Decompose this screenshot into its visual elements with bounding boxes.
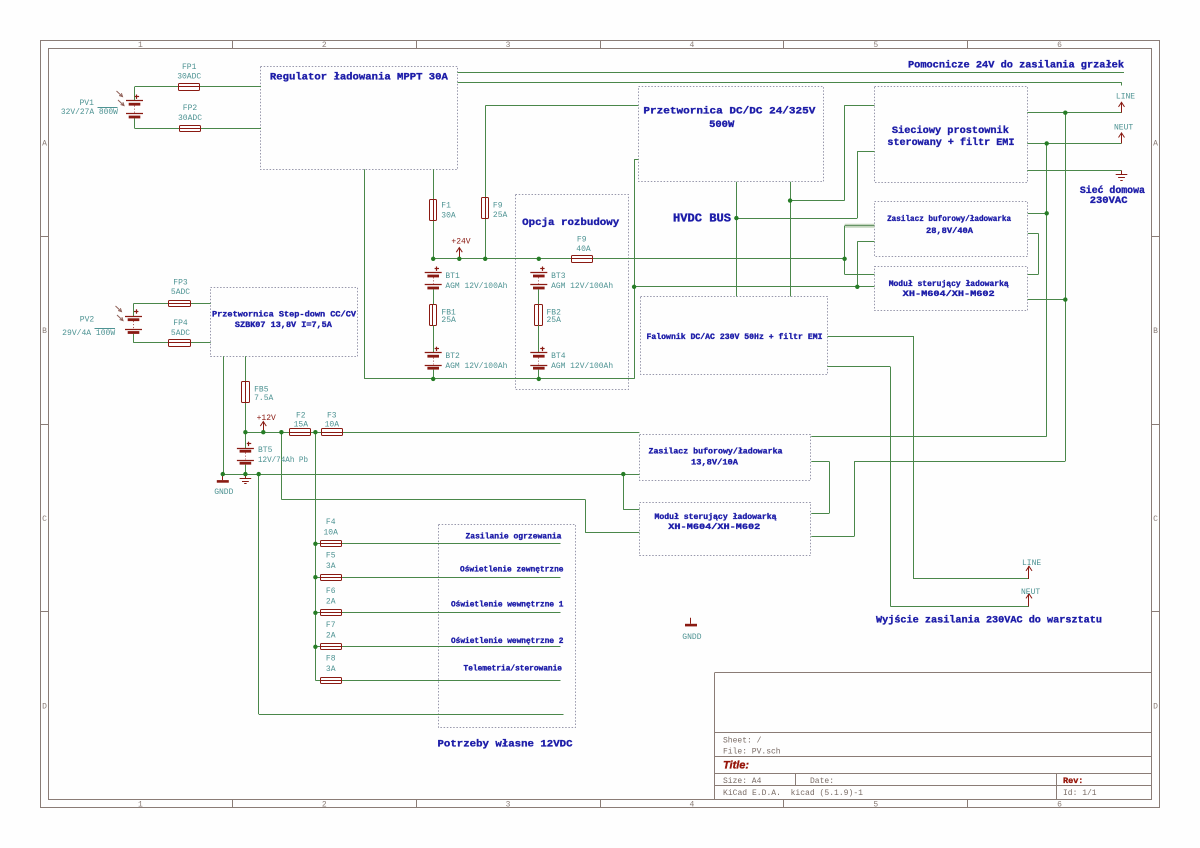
svg-text:32V/27A 800W: 32V/27A 800W — [61, 108, 118, 117]
svg-text:3: 3 — [506, 41, 511, 50]
svg-text:5: 5 — [873, 41, 878, 50]
svg-text:B: B — [42, 327, 47, 336]
svg-text:F9: F9 — [577, 235, 587, 244]
svg-text:Sieciowy prostownik: Sieciowy prostownik — [892, 125, 1009, 137]
svg-text:A: A — [42, 139, 47, 148]
svg-text:6: 6 — [1057, 801, 1062, 810]
svg-text:F9: F9 — [493, 201, 503, 210]
svg-text:F3: F3 — [327, 412, 337, 421]
svg-text:F7: F7 — [326, 621, 336, 630]
svg-text:2: 2 — [322, 801, 327, 810]
svg-text:Zasilacz buforowy/ładowarka: Zasilacz buforowy/ładowarka — [887, 214, 1011, 224]
svg-text:5: 5 — [873, 801, 878, 810]
svg-text:FP4: FP4 — [173, 319, 188, 328]
svg-text:C: C — [42, 515, 47, 524]
svg-text:30A: 30A — [441, 211, 456, 220]
svg-text:230VAC: 230VAC — [1090, 195, 1129, 207]
svg-text:C: C — [1153, 515, 1158, 524]
svg-text:Telemetria/sterowanie: Telemetria/sterowanie — [464, 664, 563, 674]
svg-text:5ADC: 5ADC — [171, 288, 190, 297]
svg-text:LINE: LINE — [1116, 93, 1135, 102]
svg-text:1: 1 — [138, 801, 143, 810]
svg-text:BT3: BT3 — [551, 272, 566, 281]
svg-text:File: PV.sch: File: PV.sch — [723, 748, 781, 757]
svg-text:FB5: FB5 — [254, 385, 269, 394]
svg-text:D: D — [42, 703, 47, 712]
svg-text:Opcja rozbudowy: Opcja rozbudowy — [522, 217, 620, 229]
svg-text:XH-M604/XH-M602: XH-M604/XH-M602 — [668, 522, 760, 532]
svg-text:F2: F2 — [296, 412, 306, 421]
svg-text:Oświetlenie zewnętrzne: Oświetlenie zewnętrzne — [460, 565, 564, 575]
svg-text:F4: F4 — [326, 518, 336, 527]
svg-text:NEUT: NEUT — [1021, 588, 1040, 597]
svg-text:BT4: BT4 — [551, 352, 566, 361]
svg-text:F6: F6 — [326, 587, 336, 596]
svg-text:2A: 2A — [326, 632, 336, 641]
svg-text:Size: A4: Size: A4 — [723, 777, 762, 786]
svg-text:B: B — [1153, 327, 1158, 336]
svg-text:Przetwornica Step-down CC/CV: Przetwornica Step-down CC/CV — [212, 309, 356, 319]
svg-text:2A: 2A — [326, 598, 336, 607]
svg-text:30ADC: 30ADC — [177, 73, 201, 82]
svg-text:Przetwornica DC/DC 24/325V: Przetwornica DC/DC 24/325V — [643, 106, 816, 118]
svg-text:BT5: BT5 — [258, 446, 273, 455]
svg-text:NEUT: NEUT — [1114, 124, 1133, 133]
svg-text:3A: 3A — [326, 665, 336, 674]
svg-text:4: 4 — [690, 801, 695, 810]
svg-text:+12V: +12V — [257, 414, 276, 423]
svg-text:25A: 25A — [441, 316, 456, 325]
svg-text:AGM 12V/100Ah: AGM 12V/100Ah — [551, 362, 613, 371]
svg-text:FP1: FP1 — [182, 63, 197, 72]
svg-text:Date:: Date: — [810, 777, 834, 786]
svg-text:Sheet: /: Sheet: / — [723, 737, 762, 746]
svg-text:30ADC: 30ADC — [178, 114, 202, 123]
svg-text:Id: 1/1: Id: 1/1 — [1063, 789, 1097, 798]
svg-text:Pomocnicze 24V do zasilania gr: Pomocnicze 24V do zasilania grzałek — [908, 59, 1124, 71]
svg-text:PV1: PV1 — [79, 99, 94, 108]
svg-text:F1: F1 — [441, 201, 451, 210]
svg-text:BT2: BT2 — [445, 352, 460, 361]
svg-text:Zasilacz buforowy/ładowarka: Zasilacz buforowy/ładowarka — [649, 447, 783, 457]
svg-text:A: A — [1153, 139, 1158, 148]
svg-text:GNDD: GNDD — [214, 488, 233, 497]
svg-text:Moduł sterujący ładowarką: Moduł sterujący ładowarką — [889, 279, 1009, 289]
svg-text:+24V: +24V — [451, 238, 470, 247]
svg-text:10A: 10A — [323, 529, 338, 538]
svg-text:10A: 10A — [325, 421, 340, 430]
svg-text:3A: 3A — [326, 562, 336, 571]
svg-text:AGM 12V/100Ah: AGM 12V/100Ah — [445, 362, 507, 371]
svg-text:PV2: PV2 — [80, 315, 95, 324]
svg-text:Oświetlenie wewnętrzne 2: Oświetlenie wewnętrzne 2 — [451, 636, 564, 646]
svg-text:5ADC: 5ADC — [171, 329, 190, 338]
svg-text:Moduł sterujący ładowarką: Moduł sterujący ładowarką — [655, 512, 777, 522]
svg-text:6: 6 — [1057, 41, 1062, 50]
svg-text:2: 2 — [322, 41, 327, 50]
svg-text:F8: F8 — [326, 655, 336, 664]
svg-text:FP3: FP3 — [173, 279, 188, 288]
svg-text:D: D — [1153, 703, 1158, 712]
svg-text:Oświetlenie wewnętrzne 1: Oświetlenie wewnętrzne 1 — [451, 600, 564, 610]
svg-text:29V/4A 100W: 29V/4A 100W — [62, 329, 115, 338]
svg-text:500W: 500W — [709, 119, 735, 131]
svg-text:KiCad E.D.A. kicad (5.1.9)-1: KiCad E.D.A. kicad (5.1.9)-1 — [723, 789, 863, 798]
svg-text:AGM 12V/100Ah: AGM 12V/100Ah — [551, 282, 613, 291]
svg-text:FP2: FP2 — [183, 104, 198, 113]
svg-text:Potrzeby własne 12VDC: Potrzeby własne 12VDC — [438, 738, 574, 750]
svg-text:GNDD: GNDD — [682, 633, 701, 642]
svg-text:sterowany + filtr EMI: sterowany + filtr EMI — [887, 137, 1014, 149]
svg-text:AGM 12V/100Ah: AGM 12V/100Ah — [445, 282, 507, 291]
svg-text:28,8V/40A: 28,8V/40A — [926, 226, 973, 236]
svg-text:25A: 25A — [493, 211, 508, 220]
svg-text:Zasilanie ogrzewania: Zasilanie ogrzewania — [466, 532, 562, 542]
svg-text:LINE: LINE — [1022, 559, 1041, 568]
svg-text:Rev:: Rev: — [1063, 776, 1083, 786]
svg-text:F5: F5 — [326, 552, 336, 561]
svg-text:Regulator ładowania MPPT 30A: Regulator ładowania MPPT 30A — [270, 72, 449, 84]
svg-text:Title:: Title: — [723, 760, 749, 772]
svg-text:1: 1 — [138, 41, 143, 50]
svg-text:12V/74Ah Pb: 12V/74Ah Pb — [258, 456, 308, 465]
svg-text:Falownik DC/AC 230V 50Hz + fil: Falownik DC/AC 230V 50Hz + filtr EMI — [647, 332, 823, 342]
svg-text:7.5A: 7.5A — [254, 394, 273, 403]
svg-text:Wyjście zasilania 230VAC do wa: Wyjście zasilania 230VAC do warsztatu — [876, 614, 1102, 626]
svg-text:3: 3 — [506, 801, 511, 810]
svg-text:25A: 25A — [547, 316, 562, 325]
svg-text:HVDC BUS: HVDC BUS — [673, 213, 731, 226]
svg-text:13,8V/10A: 13,8V/10A — [691, 458, 738, 468]
svg-text:XH-M604/XH-M602: XH-M604/XH-M602 — [903, 289, 995, 299]
svg-text:SZBK07 13,8V I=7,5A: SZBK07 13,8V I=7,5A — [235, 321, 332, 330]
svg-text:40A: 40A — [576, 245, 591, 254]
svg-text:4: 4 — [690, 41, 695, 50]
svg-text:15A: 15A — [294, 421, 309, 430]
svg-text:BT1: BT1 — [445, 272, 460, 281]
